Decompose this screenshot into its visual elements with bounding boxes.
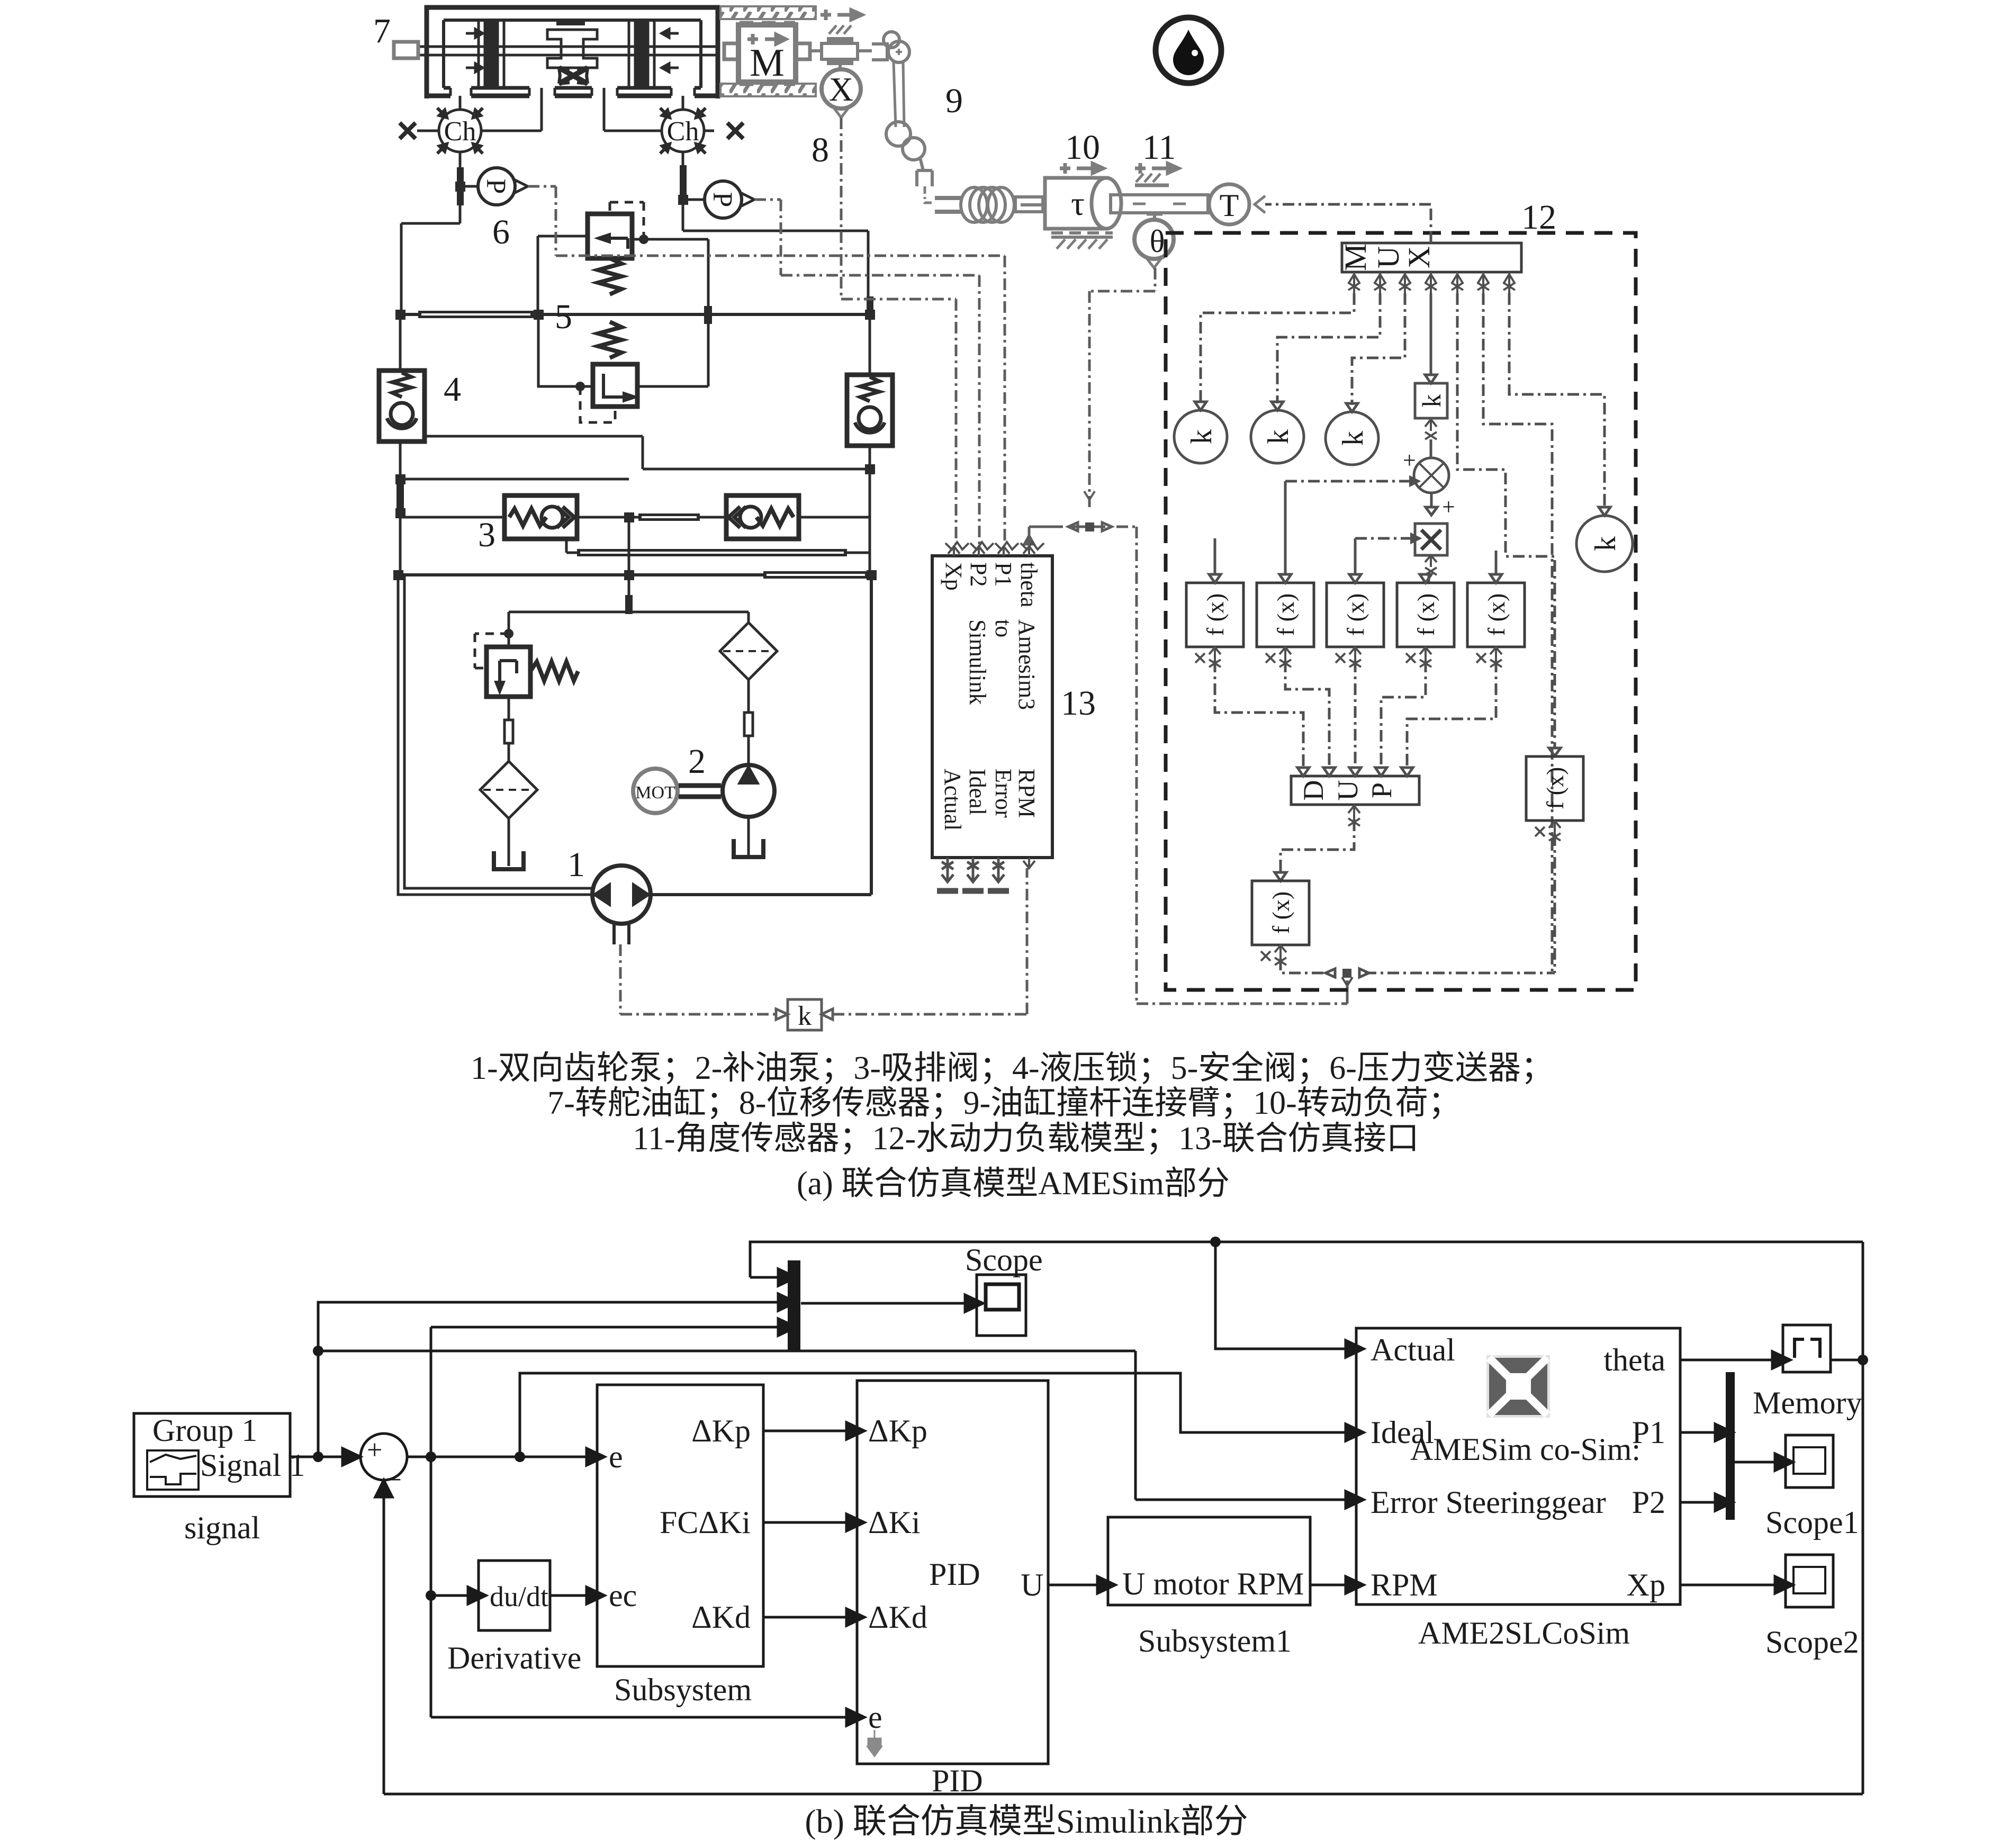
svg-text:ΔKd: ΔKd bbox=[691, 1600, 751, 1635]
svg-text:ec: ec bbox=[609, 1578, 637, 1613]
svg-text:5: 5 bbox=[555, 298, 572, 336]
svg-text:U: U bbox=[1021, 1567, 1043, 1602]
svg-text:Memory: Memory bbox=[1753, 1385, 1862, 1420]
svg-text:k: k bbox=[1417, 394, 1446, 408]
svg-text:4: 4 bbox=[444, 370, 461, 409]
svg-text:X: X bbox=[829, 70, 853, 108]
svg-text:(b) 联合仿真模型Simulink部分: (b) 联合仿真模型Simulink部分 bbox=[805, 1802, 1248, 1840]
svg-text:Signal 1: Signal 1 bbox=[200, 1448, 305, 1483]
svg-text:12: 12 bbox=[1521, 198, 1556, 237]
svg-text:1-双向齿轮泵；2-补油泵；3-吸排阀；4-液压锁；5-安全: 1-双向齿轮泵；2-补油泵；3-吸排阀；4-液压锁；5-安全阀；6-压力变送器； bbox=[471, 1050, 1554, 1086]
svg-text:7: 7 bbox=[373, 12, 391, 50]
svg-text:RPM: RPM bbox=[1371, 1567, 1438, 1602]
svg-text:signal: signal bbox=[184, 1510, 260, 1545]
svg-text:Actual: Actual bbox=[1371, 1332, 1455, 1367]
svg-text:U motor RPM: U motor RPM bbox=[1122, 1566, 1304, 1601]
svg-text:f (x): f (x) bbox=[1412, 593, 1439, 636]
svg-text:f (x): f (x) bbox=[1483, 593, 1510, 636]
svg-text:X: X bbox=[1402, 246, 1436, 268]
svg-text:Error: Error bbox=[990, 769, 1016, 818]
svg-text:M: M bbox=[750, 41, 785, 85]
svg-text:Scope: Scope bbox=[965, 1242, 1043, 1277]
svg-text:Group 1: Group 1 bbox=[152, 1413, 257, 1448]
svg-text:k: k bbox=[1337, 431, 1369, 446]
svg-text:Derivative: Derivative bbox=[447, 1640, 581, 1675]
svg-text:FCΔKi: FCΔKi bbox=[660, 1505, 751, 1540]
svg-text:13: 13 bbox=[1061, 684, 1096, 723]
svg-text:P: P bbox=[1366, 782, 1398, 798]
svg-text:Xp: Xp bbox=[941, 562, 967, 591]
svg-text:AMESim co-Sim:: AMESim co-Sim: bbox=[1410, 1432, 1641, 1467]
svg-text:ΔKp: ΔKp bbox=[868, 1413, 927, 1448]
svg-text:T: T bbox=[1220, 188, 1239, 223]
svg-text:f (x): f (x) bbox=[1267, 891, 1294, 934]
svg-text:k: k bbox=[798, 1001, 812, 1031]
svg-text:+: + bbox=[1403, 447, 1416, 473]
svg-text:8: 8 bbox=[812, 131, 829, 169]
svg-text:9: 9 bbox=[945, 82, 963, 120]
svg-text:Scope1: Scope1 bbox=[1765, 1505, 1859, 1540]
svg-text:k: k bbox=[1589, 536, 1622, 551]
svg-text:P1: P1 bbox=[1632, 1415, 1665, 1450]
svg-text:AME2SLCoSim: AME2SLCoSim bbox=[1418, 1616, 1630, 1651]
svg-text:11-角度传感器；12-水动力负载模型；13-联合仿真接口: 11-角度传感器；12-水动力负载模型；13-联合仿真接口 bbox=[633, 1121, 1419, 1157]
svg-text:f (x): f (x) bbox=[1542, 767, 1569, 809]
svg-text:du/dt: du/dt bbox=[490, 1581, 548, 1612]
svg-text:ΔKp: ΔKp bbox=[691, 1413, 751, 1448]
svg-text:RPM: RPM bbox=[1014, 769, 1040, 818]
svg-text:e: e bbox=[868, 1700, 882, 1735]
svg-text:U: U bbox=[1371, 246, 1405, 268]
svg-text:f (x): f (x) bbox=[1202, 593, 1229, 636]
svg-text:Subsystem: Subsystem bbox=[614, 1672, 752, 1707]
svg-text:D: D bbox=[1297, 780, 1329, 801]
svg-text:1: 1 bbox=[567, 845, 585, 884]
svg-text:Scope2: Scope2 bbox=[1765, 1625, 1859, 1660]
svg-text:7-转舵油缸；8-位移传感器；9-油缸撞杆连接臂；10-转动: 7-转舵油缸；8-位移传感器；9-油缸撞杆连接臂；10-转动负荷； bbox=[547, 1085, 1461, 1121]
svg-text:11: 11 bbox=[1142, 128, 1176, 167]
svg-text:Subsystem1: Subsystem1 bbox=[1138, 1624, 1292, 1658]
svg-text:3: 3 bbox=[478, 516, 495, 554]
svg-text:Actual: Actual bbox=[940, 769, 966, 831]
svg-text:τ: τ bbox=[1071, 185, 1085, 222]
svg-text:2: 2 bbox=[688, 742, 706, 781]
svg-text:P: P bbox=[481, 179, 511, 194]
svg-text:θ: θ bbox=[1150, 224, 1165, 259]
svg-text:6: 6 bbox=[492, 213, 510, 251]
svg-text:U: U bbox=[1332, 780, 1364, 801]
svg-text:theta: theta bbox=[1603, 1342, 1665, 1377]
svg-text:MOT: MOT bbox=[635, 783, 675, 803]
svg-text:theta: theta bbox=[1016, 562, 1042, 608]
svg-text:+: + bbox=[367, 1435, 382, 1465]
svg-text:Amesim3: Amesim3 bbox=[1014, 619, 1040, 710]
svg-text:to: to bbox=[990, 619, 1016, 637]
svg-text:k: k bbox=[1262, 429, 1295, 444]
svg-text:ΔKi: ΔKi bbox=[868, 1505, 921, 1540]
svg-text:P2: P2 bbox=[1632, 1485, 1665, 1520]
svg-text:10: 10 bbox=[1065, 128, 1100, 167]
svg-text:Simulink: Simulink bbox=[965, 619, 990, 705]
svg-text:k: k bbox=[1185, 429, 1218, 444]
svg-text:PID: PID bbox=[929, 1557, 980, 1592]
svg-text:Xp: Xp bbox=[1627, 1567, 1665, 1602]
svg-text:e: e bbox=[609, 1439, 623, 1474]
svg-text:Ideal: Ideal bbox=[965, 769, 990, 815]
svg-text:ΔKd: ΔKd bbox=[868, 1600, 927, 1635]
svg-text:(a) 联合仿真模型AMESim部分: (a) 联合仿真模型AMESim部分 bbox=[797, 1166, 1230, 1202]
svg-text:P1: P1 bbox=[990, 562, 1016, 587]
svg-text:M: M bbox=[1338, 244, 1373, 271]
svg-text:f (x): f (x) bbox=[1272, 593, 1299, 636]
svg-text:_: _ bbox=[386, 1453, 401, 1483]
svg-text:P: P bbox=[707, 192, 737, 208]
svg-text:+: + bbox=[1442, 494, 1455, 520]
svg-text:f (x): f (x) bbox=[1342, 593, 1369, 636]
svg-text:P2: P2 bbox=[966, 562, 992, 587]
svg-text:Error Steeringgear: Error Steeringgear bbox=[1371, 1485, 1606, 1520]
